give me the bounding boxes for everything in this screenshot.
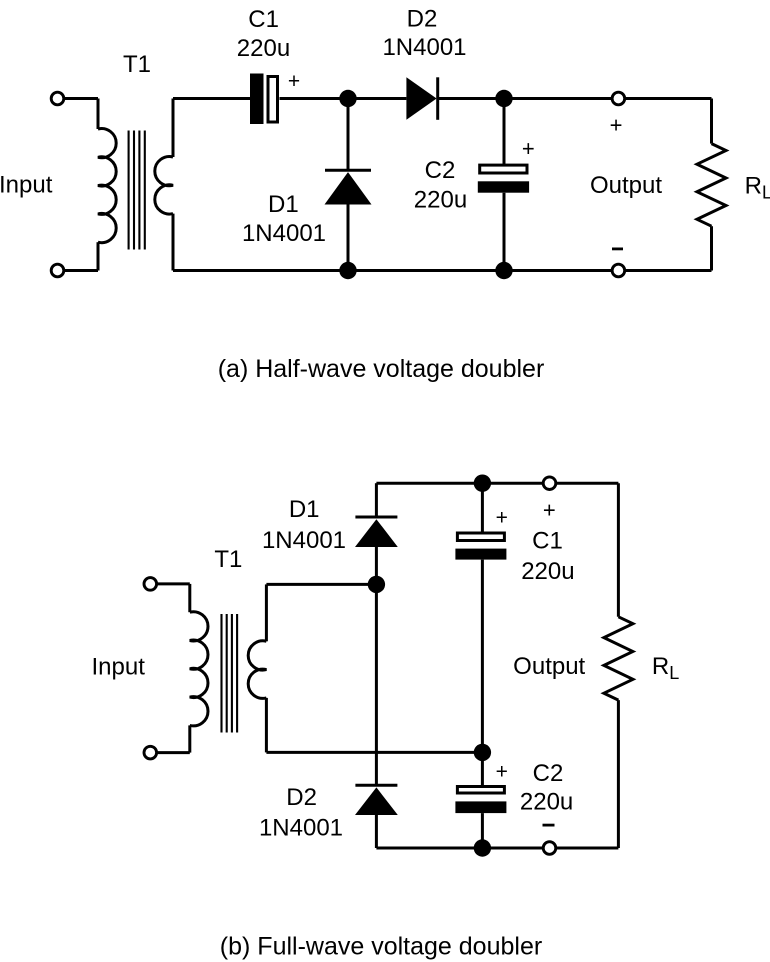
- svg-text:D1: D1: [289, 496, 320, 523]
- svg-text:Output: Output: [513, 653, 585, 680]
- svg-text:D2: D2: [286, 784, 317, 811]
- svg-text:C2: C2: [425, 157, 456, 184]
- svg-text:Input: Input: [0, 172, 53, 199]
- svg-text:+: +: [496, 760, 508, 783]
- svg-text:220u: 220u: [414, 186, 467, 213]
- svg-text:+: +: [496, 506, 508, 529]
- svg-text:1N4001: 1N4001: [382, 34, 466, 61]
- svg-text:(b) Full-wave voltage doubler: (b) Full-wave voltage doubler: [220, 933, 542, 961]
- svg-text:T1: T1: [123, 51, 151, 78]
- svg-text:(a) Half-wave voltage doubler: (a) Half-wave voltage doubler: [218, 355, 545, 383]
- svg-text:1N4001: 1N4001: [242, 220, 326, 247]
- svg-text:220u: 220u: [237, 35, 290, 62]
- svg-text:220u: 220u: [520, 789, 573, 816]
- svg-text:RL: RL: [652, 653, 679, 683]
- svg-text:Input: Input: [92, 654, 146, 681]
- svg-text:D1: D1: [268, 191, 299, 218]
- svg-text:+: +: [543, 498, 556, 523]
- svg-text:+: +: [610, 112, 623, 137]
- svg-text:Output: Output: [590, 172, 662, 199]
- svg-text:RL: RL: [745, 173, 770, 203]
- svg-text:+: +: [522, 136, 535, 161]
- svg-text:1N4001: 1N4001: [262, 527, 346, 554]
- svg-text:C1: C1: [248, 6, 279, 33]
- svg-text:D2: D2: [407, 6, 438, 33]
- svg-text:C2: C2: [533, 760, 564, 787]
- svg-text:T1: T1: [214, 546, 242, 573]
- svg-text:1N4001: 1N4001: [259, 815, 343, 842]
- svg-text:220u: 220u: [521, 558, 574, 585]
- svg-text:C1: C1: [532, 528, 563, 555]
- svg-text:+: +: [288, 70, 300, 93]
